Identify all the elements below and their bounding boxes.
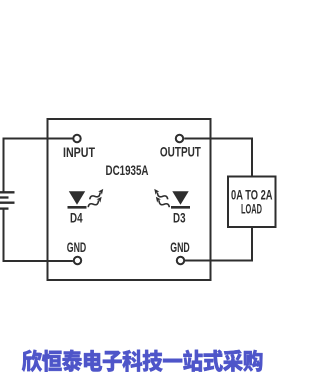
svg-text:OUTPUT: OUTPUT [160,144,201,160]
svg-text:D4: D4 [70,210,83,226]
svg-text:DC1935A: DC1935A [106,162,149,178]
svg-text:LOAD: LOAD [241,201,262,217]
svg-text:GND: GND [170,239,190,255]
svg-text:GND: GND [67,239,87,255]
svg-text:D3: D3 [173,210,186,226]
svg-text:INPUT: INPUT [63,144,95,160]
